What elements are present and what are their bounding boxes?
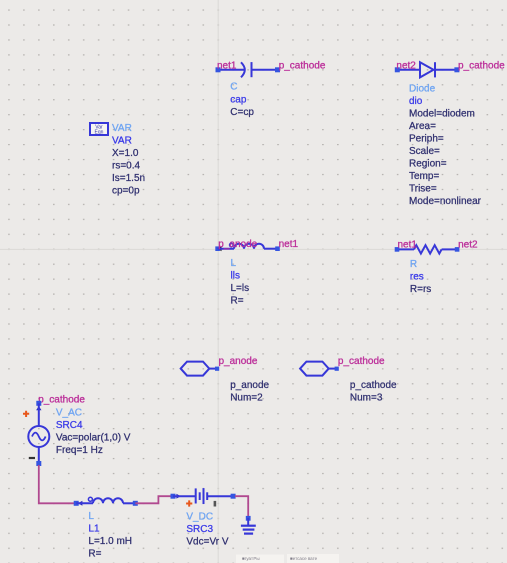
node square right (275, 246, 280, 251)
wire SRC3 to ground (235, 496, 248, 517)
node square right (231, 494, 236, 499)
wire to net1 (264, 248, 278, 250)
VAR box (90, 123, 108, 135)
minus polarity mark (214, 501, 217, 507)
inductor coil (93, 498, 123, 503)
lead (329, 368, 336, 370)
svg-text:L1: L1 (88, 524, 100, 535)
wire p_anode lead (218, 248, 235, 250)
node square left (215, 246, 220, 251)
svg-text:cap: cap (230, 94, 247, 105)
wire C pin2 to p_cathode (252, 69, 278, 71)
capacitor C (216, 60, 326, 118)
svg-text:Model=diodem: Model=diodem (409, 108, 475, 119)
ground stem (247, 518, 249, 526)
lead left (76, 502, 93, 504)
svg-text:■гуат Ры: ■гуат Ры (242, 556, 260, 561)
svg-text:Region=: Region= (409, 158, 447, 169)
ground bar 2 (243, 528, 255, 530)
hexagon symbol (300, 362, 329, 376)
svg-text:Num=2: Num=2 (230, 393, 263, 404)
diode triangle (420, 62, 434, 77)
lead top (38, 403, 40, 426)
svg-text:p_cathode: p_cathode (279, 60, 326, 71)
svg-text:p_anode: p_anode (230, 380, 269, 391)
svg-text:Is=1.5n: Is=1.5n (112, 173, 145, 184)
inductor coil (234, 244, 264, 249)
svg-text:V_DC: V_DC (186, 511, 213, 522)
inductor lls (215, 239, 298, 307)
svg-text:p_cathode: p_cathode (350, 380, 397, 391)
node square right (454, 67, 459, 72)
lead right (207, 495, 233, 497)
svg-text:Vac=polar(1,0) V: Vac=polar(1,0) V (56, 433, 131, 444)
svg-text:Temp=: Temp= (409, 171, 439, 182)
svg-text:dio: dio (409, 96, 423, 107)
node square right (275, 67, 280, 72)
svg-text:C: C (230, 82, 237, 93)
svg-text:V_AC: V_AC (56, 408, 82, 419)
svg-text:X=1.0: X=1.0 (112, 148, 139, 159)
resistor R (395, 239, 478, 295)
svg-text:Vdc=Vr V: Vdc=Vr V (186, 536, 228, 547)
node square (246, 516, 251, 521)
svg-text:p_anode: p_anode (218, 239, 257, 250)
lead right (123, 502, 135, 504)
node square left (395, 247, 400, 252)
resistor zigzag (414, 245, 442, 253)
wire R to net2 (442, 248, 458, 250)
svg-text:R=rs: R=rs (410, 284, 431, 295)
source circle (28, 426, 49, 447)
svg-text:p_cathode: p_cathode (338, 356, 385, 367)
svg-text:R=: R= (88, 549, 101, 560)
diode cathode bar (434, 62, 436, 77)
plus polarity mark (23, 411, 29, 417)
node square left (74, 501, 79, 506)
svg-text:net1: net1 (217, 60, 237, 71)
DC source SRC3 (171, 488, 236, 547)
ground (241, 516, 256, 534)
svg-text:Periph=: Periph= (409, 133, 444, 144)
wire cathode to p_cathode (435, 69, 457, 71)
wire net1 to R (397, 248, 414, 250)
axis gridline vertical (217, 0, 219, 563)
node square (215, 367, 219, 371)
VAR box text (95, 125, 103, 131)
svg-text:SRC3: SRC3 (186, 524, 213, 535)
VAR equation block (90, 123, 145, 197)
axis gridline horizontal (0, 248, 507, 250)
battery plate short 1 (199, 492, 201, 500)
svg-text:res: res (410, 272, 424, 283)
svg-text:p_cathode: p_cathode (38, 394, 85, 405)
svg-text:VAR: VAR (112, 123, 132, 134)
svg-text:Diode: Diode (409, 83, 436, 94)
inductor L1 (74, 497, 138, 559)
pin arrow up (36, 406, 41, 410)
svg-text:L=ls: L=ls (231, 283, 250, 294)
node square right (455, 247, 460, 252)
svg-text:SRC4: SRC4 (56, 420, 83, 431)
svg-text:R: R (410, 259, 417, 270)
lead bottom (38, 447, 40, 464)
AC source SRC4 (23, 394, 131, 466)
svg-text:R=: R= (231, 296, 244, 307)
svg-text:rs=0.4: rs=0.4 (112, 161, 141, 172)
svg-text:Mode=nonlinear: Mode=nonlinear (409, 196, 482, 207)
svg-text:L: L (88, 511, 94, 522)
sine wave (32, 433, 46, 441)
svg-text:p_cathode: p_cathode (458, 60, 505, 71)
capacitor straight plate (251, 62, 253, 77)
svg-text:Area=: Area= (409, 121, 436, 132)
wire net1 to C pin1 (218, 69, 244, 71)
svg-text:VAR: VAR (112, 136, 132, 147)
wire net2 to anode (397, 69, 420, 71)
port p_anode (hexagon) (181, 356, 270, 404)
node square right (133, 501, 138, 506)
svg-text:net2: net2 (396, 60, 416, 71)
svg-text:net2: net2 (458, 239, 478, 250)
taskbar fragment 2 (287, 554, 339, 563)
svg-text:C=cp: C=cp (230, 107, 254, 118)
svg-text:Freq=1 Hz: Freq=1 Hz (56, 445, 103, 456)
svg-text:net1: net1 (398, 239, 418, 250)
svg-text:Scale=: Scale= (409, 146, 440, 157)
svg-text:net1: net1 (279, 239, 299, 250)
battery plate tall 1 (195, 488, 197, 503)
capacitor curved plate (241, 62, 245, 77)
svg-text:lls: lls (231, 271, 240, 282)
hexagon symbol (181, 362, 210, 376)
node square bottom (36, 461, 41, 466)
wire L1 to SRC3 (135, 496, 173, 503)
node square (335, 367, 339, 371)
node square left (216, 67, 221, 72)
battery plate tall 2 (203, 488, 205, 504)
plus polarity mark (186, 500, 192, 506)
svg-text:Trise=: Trise= (409, 183, 437, 194)
lead left (173, 495, 196, 497)
diode D1 (395, 60, 505, 207)
inductor pin1 dot (230, 243, 234, 247)
battery plate short 2 (206, 492, 208, 500)
svg-text:cp=0p: cp=0p (112, 186, 140, 197)
pin arrow left (217, 246, 222, 251)
port p_cathode (hexagon) (300, 356, 397, 404)
svg-text:Num=3: Num=3 (350, 393, 383, 404)
wire SRC4 to L1 (39, 465, 76, 503)
svg-text:Eqn: Eqn (95, 129, 104, 135)
ground bar 3 (244, 532, 253, 534)
lead (209, 368, 216, 370)
node square left (171, 494, 176, 499)
pin arrow left (78, 501, 82, 506)
inductor pin1 dot (88, 497, 92, 501)
ground bar 1 (241, 525, 256, 527)
pin arrow right (176, 494, 180, 499)
svg-text:L=1.0 mH: L=1.0 mH (88, 536, 132, 547)
node square top (36, 401, 41, 406)
taskbar fragment 1 (236, 555, 284, 563)
svg-text:L: L (231, 258, 237, 269)
minus polarity mark (29, 457, 35, 459)
svg-text:p_anode: p_anode (219, 356, 258, 367)
svg-text:■етсасе вате: ■етсасе вате (290, 556, 318, 561)
node square left (395, 67, 400, 72)
